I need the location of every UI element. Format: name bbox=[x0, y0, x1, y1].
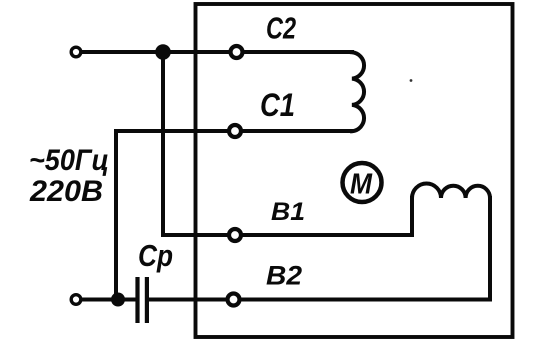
svg-text:~50Гц: ~50Гц bbox=[29, 144, 109, 177]
svg-text:В2: В2 bbox=[266, 261, 302, 291]
svg-text:С1: С1 bbox=[260, 87, 295, 123]
svg-text:М: М bbox=[350, 169, 373, 201]
svg-text:С2: С2 bbox=[266, 11, 296, 46]
svg-text:Ср: Ср bbox=[138, 238, 173, 273]
svg-text:В1: В1 bbox=[271, 198, 305, 226]
svg-text:220В: 220В bbox=[29, 175, 103, 208]
